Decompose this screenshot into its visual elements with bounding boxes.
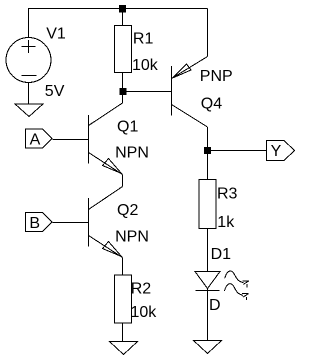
- wire A to Q1 base: [53, 139, 89, 141]
- svg-text:B: B: [29, 215, 40, 232]
- wire V1 bottom lead: [28, 83, 30, 105]
- resistor R2: [115, 275, 132, 323]
- transistor Q4 PNP: [172, 57, 208, 128]
- svg-text:D1: D1: [211, 246, 232, 263]
- diode D1 LED: [195, 272, 220, 291]
- wire node to Q4 base: [126, 91, 172, 93]
- wire R1 bottom lead: [122, 73, 124, 89]
- wire Q1 collector stub: [122, 95, 124, 103]
- node top junction: [119, 5, 126, 13]
- ground below D1: [194, 341, 222, 354]
- svg-text:Q2: Q2: [117, 202, 138, 219]
- wire R3 to LED: [207, 229, 209, 272]
- port A: [26, 129, 53, 148]
- svg-text:5V: 5V: [45, 83, 65, 100]
- wire R1 top lead: [122, 12, 124, 26]
- svg-text:D: D: [209, 297, 221, 314]
- wire Q1 emitter to Q2 collector: [122, 175, 124, 187]
- svg-text:R3: R3: [217, 185, 238, 202]
- voltage source V1: [6, 38, 51, 83]
- node output junction: [204, 147, 211, 154]
- wire Q2 emitter to R2: [122, 258, 124, 276]
- svg-text:10k: 10k: [131, 304, 158, 321]
- svg-text:Q1: Q1: [117, 118, 138, 135]
- svg-text:PNP: PNP: [200, 68, 233, 85]
- svg-text:A: A: [30, 131, 41, 148]
- wire LED to ground: [207, 289, 209, 341]
- transistor Q1: [89, 103, 123, 175]
- wire Q4 emitter rail: [207, 9, 209, 57]
- resistor R3: [199, 180, 216, 229]
- svg-text:R1: R1: [133, 31, 154, 48]
- svg-text:Q4: Q4: [201, 96, 222, 113]
- svg-text:NPN: NPN: [115, 229, 149, 246]
- wire B to Q2 base: [53, 222, 89, 224]
- LED emission arrow 2: [224, 284, 248, 300]
- svg-text:1k: 1k: [217, 214, 235, 231]
- LED emission arrow 1: [225, 271, 249, 287]
- port Y: [267, 141, 295, 161]
- svg-text:R2: R2: [131, 281, 152, 298]
- svg-text:Y: Y: [271, 143, 282, 160]
- wire V1 top lead: [28, 9, 30, 38]
- svg-text:NPN: NPN: [115, 145, 149, 162]
- resistor R1: [115, 26, 132, 73]
- wire top rail: [28, 8, 208, 10]
- port B: [26, 213, 53, 232]
- transistor Q2: [89, 187, 123, 258]
- ground below V1: [15, 104, 43, 117]
- svg-text:V1: V1: [46, 25, 66, 42]
- ground below R2: [110, 342, 138, 355]
- wire node to Y: [211, 150, 266, 152]
- wire R2 bottom lead: [122, 323, 124, 342]
- node below R1: [120, 88, 127, 95]
- svg-text:10k: 10k: [132, 57, 159, 74]
- wire R3 top lead: [207, 154, 209, 180]
- wire Q4 collector down: [207, 127, 209, 147]
